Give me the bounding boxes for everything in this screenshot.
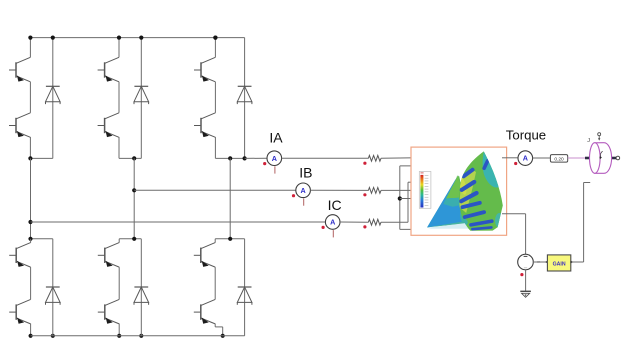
wire sensor to ground <box>525 269 527 291</box>
wire leg2 collector stem <box>118 38 120 58</box>
wire machine speed output <box>502 213 526 215</box>
wire leg1 collector stem <box>29 38 31 58</box>
junction rail bottom leg3 <box>221 334 225 338</box>
svg-text:A: A <box>300 186 305 195</box>
resistor R1 <box>368 155 381 161</box>
resistor R2 <box>368 188 381 194</box>
diode D3 <box>237 86 252 104</box>
node phase A tap <box>228 156 247 160</box>
wire top DC+ rail <box>30 37 244 39</box>
transistor Q4 <box>98 113 119 138</box>
wire leg2 bottom bar <box>119 157 141 159</box>
wire leg3 emitter to bar <box>214 137 216 158</box>
wire bottom leg3 diode branch <box>244 239 246 336</box>
wire R1 to machine terminal A+ <box>381 156 420 159</box>
flag R3 <box>363 225 366 228</box>
wire bus stub A- <box>400 164 420 166</box>
wire leg1 bottom bar <box>30 157 52 159</box>
wire feed column3 <box>229 158 231 238</box>
wire phase B to ammeter <box>134 189 296 191</box>
transistor Q8 <box>9 299 30 324</box>
ammeter IB <box>292 183 311 206</box>
ground symbol <box>520 291 531 297</box>
label IA <box>269 130 283 146</box>
junction bottom leg3 feed <box>228 237 232 241</box>
transistor Q11 <box>194 243 215 268</box>
svg-text:IB: IB <box>299 165 312 181</box>
legend box <box>419 172 431 209</box>
wire leg1 diode branch <box>52 38 54 159</box>
wire bottom leg1 inter-transistor <box>30 267 32 299</box>
wire bottom leg1 collector stem <box>30 239 32 243</box>
svg-text:J: J <box>587 138 590 144</box>
ammeter IA <box>263 151 282 174</box>
wire R3 riser to terminal C+ <box>381 180 420 222</box>
coupling block 0.20 <box>550 155 567 163</box>
transistor Q12 <box>194 299 215 324</box>
transistor Q9 <box>98 243 119 268</box>
machine stator field patches <box>458 151 504 228</box>
wire feed column2 <box>133 158 135 238</box>
wire bottom leg1 diode branch <box>52 239 54 336</box>
diode D4 <box>46 287 61 305</box>
wire leg3 inter-transistor <box>214 82 216 113</box>
label IB <box>299 165 312 181</box>
diode D5 <box>134 287 149 305</box>
junction rail leg3 <box>213 36 217 40</box>
svg-text:A: A <box>272 154 277 163</box>
sensor W1 (speed sensor) <box>518 254 534 276</box>
wire gain feedback riser <box>571 183 590 263</box>
wire bottom leg1 top bar <box>31 238 53 240</box>
ammeter Torque meter <box>514 151 532 166</box>
wire return bus vertical <box>399 166 401 230</box>
wire bus bottom stub C- <box>400 227 422 229</box>
machine bottom sliver <box>427 223 477 229</box>
wire leg2 emitter to bar <box>118 137 120 158</box>
wire bottom leg2 emitter to rail <box>118 324 120 336</box>
svg-text:GAIN: GAIN <box>553 261 566 267</box>
wire sensor to gain <box>533 261 548 263</box>
mechanical load J1 <box>585 143 620 174</box>
svg-text:A: A <box>330 218 335 227</box>
label sensor tiny <box>537 259 541 264</box>
wire leg2 inter-transistor <box>118 82 120 113</box>
legend tick labels <box>425 176 429 206</box>
label position pin <box>598 133 601 141</box>
junction rail leg3 diode-transistor <box>213 36 217 40</box>
transistor Q3 <box>98 57 119 82</box>
transistor Q2 <box>9 113 30 138</box>
wire IC to resistor R3 <box>340 221 369 223</box>
flag R2 <box>363 193 366 196</box>
junction rail leg2 <box>117 36 143 40</box>
wire bottom leg3 inter-transistor <box>214 267 216 299</box>
wire bottom leg2 inter-transistor <box>118 267 120 299</box>
transistor Q10 <box>98 299 119 324</box>
wire leg2 diode branch <box>140 38 142 159</box>
wire bottom leg2 collector stem <box>118 239 120 243</box>
junction rail leg1 <box>28 36 55 40</box>
legend title red <box>421 172 424 174</box>
node phase B tap col2 <box>132 156 136 160</box>
junction bus <box>398 196 402 200</box>
wire feed column1 <box>30 158 32 238</box>
wire phase C to ammeter <box>31 221 326 223</box>
label J <box>587 138 590 144</box>
label Torque <box>506 128 546 143</box>
wire bottom leg3 emitter jog <box>215 324 223 336</box>
wire bottom leg2 top bar <box>119 238 141 240</box>
wire machine torque output <box>502 157 518 159</box>
wire bottom leg3 collector stem <box>214 239 216 243</box>
machine rotor sector <box>427 175 468 227</box>
machine stator sector <box>459 151 503 230</box>
wire bottom leg1 emitter to rail <box>30 324 32 336</box>
flag R1 <box>363 162 366 165</box>
wire IA to resistor R1 <box>282 157 369 159</box>
machine stator winding slots <box>458 158 494 230</box>
transistor Q6 <box>194 113 215 138</box>
junction phase B on column2 <box>132 188 136 192</box>
gain block GAIN <box>546 255 573 271</box>
svg-text:IC: IC <box>328 197 342 213</box>
transistor Q5 <box>194 57 215 82</box>
transistor Q1 <box>9 57 30 82</box>
transistor Q7 <box>9 243 30 268</box>
diode D1 <box>46 86 61 104</box>
legend color bar <box>420 175 423 208</box>
wire phase A to ammeter <box>245 157 267 159</box>
wire IB to resistor R2 <box>310 189 368 191</box>
wire leg3 diode branch <box>244 38 246 159</box>
node phase A col1 bar <box>28 156 32 160</box>
svg-text:Torque: Torque <box>506 128 546 143</box>
diode D2 <box>134 86 149 104</box>
svg-text:IA: IA <box>269 130 283 146</box>
wire R2 to machine terminal B+ <box>381 188 420 190</box>
wire bottom leg2 diode branch <box>140 239 142 336</box>
resistor R3 <box>368 219 381 225</box>
wire leg3 collector stem <box>214 38 216 58</box>
wire bottom DC- rail <box>31 335 245 337</box>
svg-text:0.20: 0.20 <box>554 157 564 163</box>
junction rail bottom leg2 <box>117 334 143 338</box>
wire bottom leg3 top bar <box>215 238 244 240</box>
label IC <box>328 197 342 213</box>
ammeter IC <box>322 215 341 238</box>
wire leg1 emitter to bar <box>29 137 31 158</box>
wire leg3 bottom bar <box>215 157 244 159</box>
wire speed drop <box>525 214 527 255</box>
junction bottom leg1 feed <box>28 237 32 241</box>
junction rail bottom leg1 <box>29 334 55 338</box>
wire leg1 inter-transistor <box>29 82 31 113</box>
SRM machine block U1 frame <box>411 147 507 235</box>
svg-text:A: A <box>523 154 528 163</box>
diode D6 <box>237 287 252 305</box>
wire bus stub B- <box>400 196 420 198</box>
junction bottom leg2 feed <box>132 237 136 241</box>
junction phase C on column1 <box>28 220 32 224</box>
wire torque meter to coupling box <box>533 157 551 159</box>
wire coupling to load (mechanical) <box>568 157 590 159</box>
